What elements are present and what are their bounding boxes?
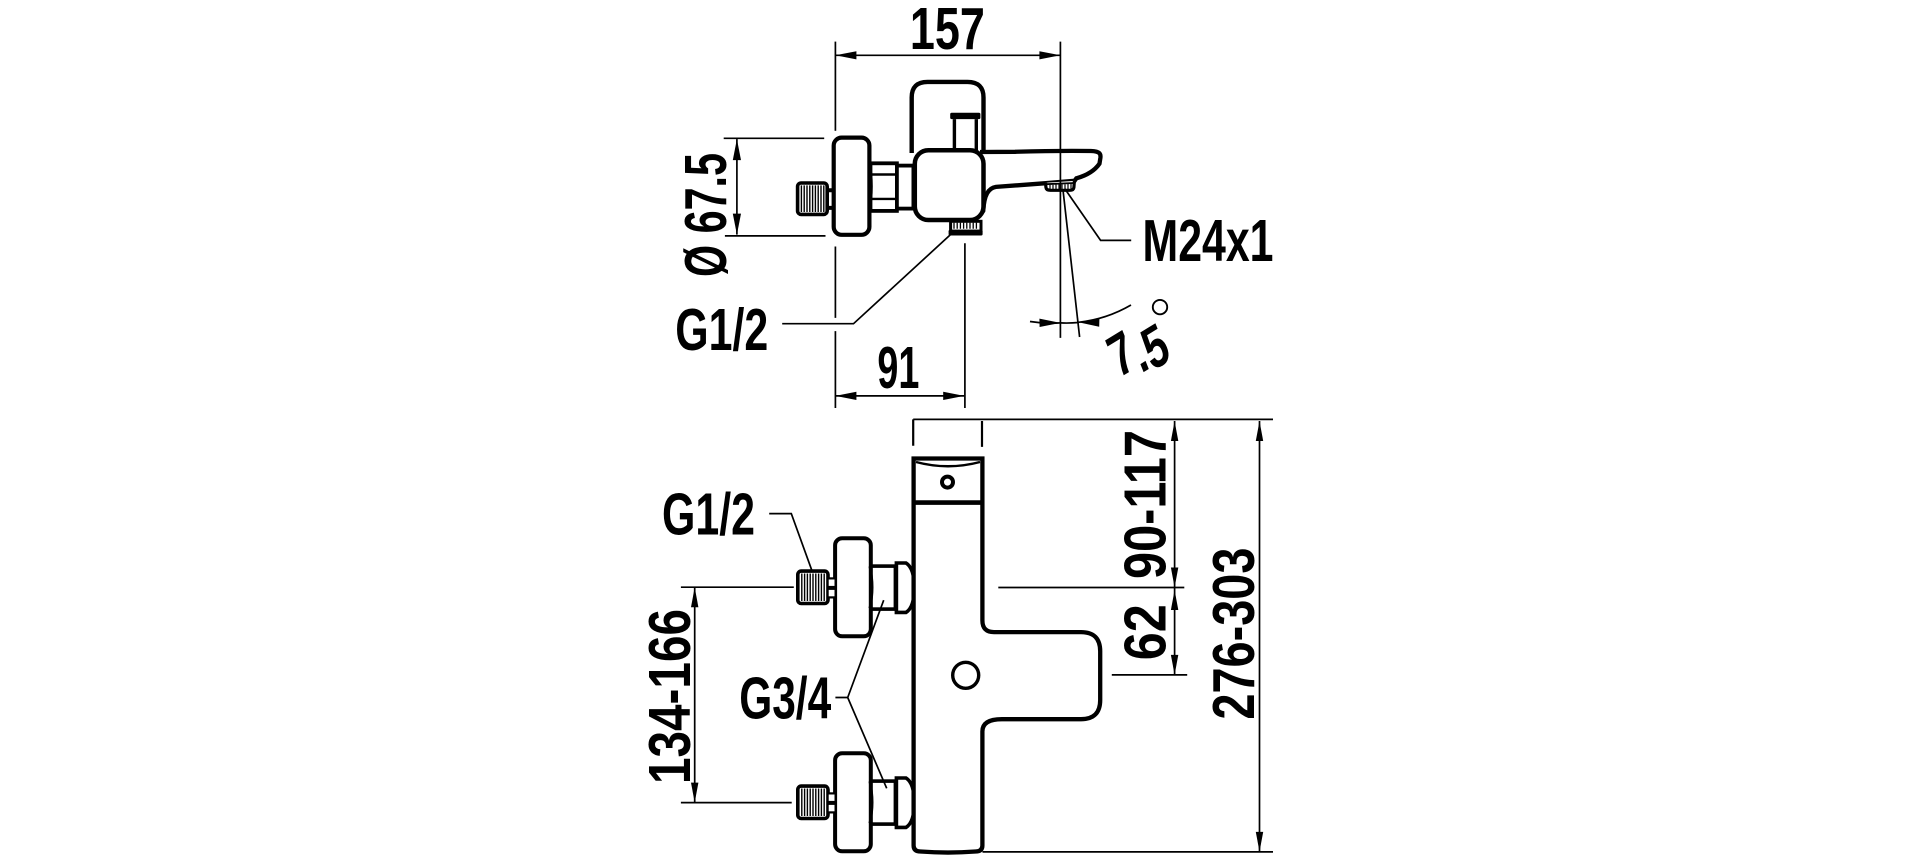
top inlet port: threaded nipple G1/2 (798, 571, 828, 603)
leader M24x1 (1065, 189, 1131, 241)
wall flange (escutcheon disc) (834, 138, 870, 235)
svg-text:G1/2: G1/2 (675, 297, 768, 363)
svg-text:91: 91 (877, 335, 919, 401)
arrow 90-117 bottom (1171, 568, 1178, 588)
arrow right of 91 (943, 392, 964, 400)
arrow 62 bottom (1171, 655, 1178, 675)
arrow 276-303 top (1256, 421, 1263, 441)
aerator M24x1 outlet (1046, 181, 1075, 190)
svg-text:276-303: 276-303 (1201, 548, 1267, 720)
degree symbol circle (1153, 300, 1167, 314)
svg-text:157: 157 (910, 0, 985, 62)
arrow left of 91 (835, 392, 856, 400)
leader G1/2 (bottom view) (769, 514, 812, 572)
body outline (front view) (914, 459, 1101, 853)
svg-text:G1/2: G1/2 (662, 482, 755, 548)
svg-text:G3/4: G3/4 (739, 666, 831, 732)
spout (side view) (980, 151, 1100, 215)
arrow 90-117 top (1171, 421, 1178, 441)
dim 90-117 line (1174, 421, 1176, 588)
arc arrow at vertical line (1039, 319, 1060, 327)
mixer body escutcheon (rounded square) (915, 150, 984, 220)
arrow 62 top (1171, 590, 1178, 610)
arrow right of 157 (1039, 51, 1060, 59)
lever handle (side view) (912, 82, 984, 153)
nipple neck rings (827, 190, 835, 208)
bottom flange face curve (870, 781, 872, 823)
arrow 134-166 bottom (691, 783, 698, 803)
7.5 degree arc (1030, 322, 1060, 324)
handle collar bar (950, 113, 980, 119)
dim 67.5 line (736, 139, 738, 235)
arrow bottom of 67.5 (733, 214, 741, 235)
svg-text:134-166: 134-166 (637, 609, 703, 784)
top inlet port: adapter G3/4 (871, 566, 896, 609)
bottom nipple neck rings (828, 793, 836, 802)
dim 157 line (835, 54, 1060, 56)
svg-text:62: 62 (1112, 604, 1178, 660)
cartridge stem (954, 119, 976, 150)
body top ellipse arc (916, 462, 980, 466)
7.5 degree tilted jet line (1063, 190, 1080, 337)
flange face curve (869, 161, 871, 212)
top bracket (thin) (913, 419, 982, 447)
arrow 134-166 top (691, 587, 698, 607)
small hole (942, 477, 953, 488)
body dividing line (912, 500, 984, 505)
dim 157 extension lines (834, 42, 836, 131)
port centerline extension (right) (998, 587, 1184, 589)
bottom inlet port: adapter G3/4 (871, 781, 896, 824)
threaded wall nipple G1/2 (798, 183, 828, 214)
top extension line (913, 418, 1273, 420)
svg-text:Ø 67.5: Ø 67.5 (673, 153, 739, 277)
dim 67.5 extension lines (724, 137, 825, 139)
top inlet port: step to body (896, 563, 914, 612)
top nipple neck rings (828, 578, 836, 587)
dim 91 extension lines (834, 247, 836, 409)
dim 91 line (835, 395, 964, 397)
bottom inlet port: threaded nipple G1/2 (798, 786, 828, 818)
dim 134-166 line (694, 587, 696, 802)
circle centerline extension (1112, 674, 1187, 676)
bottom inlet port: step to body (896, 778, 914, 827)
stepped adapter between flange and body (871, 163, 897, 211)
dim 134-166 extension lines (681, 586, 794, 588)
svg-text:M24x1: M24x1 (1143, 208, 1274, 274)
leader G3/4 fork (835, 600, 886, 788)
arrow 276-303 bottom (1256, 832, 1263, 852)
leader G1/2 (top view) (782, 234, 951, 324)
arrow top of 67.5 (733, 139, 741, 160)
handle screw circle (953, 662, 979, 688)
top inlet port: wall flange (835, 538, 871, 636)
shower hose nut G1/2 below body (951, 221, 981, 231)
svg-text:90-117: 90-117 (1112, 430, 1178, 579)
arc arrow at tilted line (1078, 318, 1099, 326)
bottom extension line (983, 851, 1274, 853)
top flange face curve (870, 566, 872, 608)
dim 276-303 line (1259, 421, 1261, 852)
dim 62 line (1174, 588, 1176, 675)
arrow left of 157 (835, 51, 856, 59)
bottom inlet port: wall flange (835, 753, 871, 851)
